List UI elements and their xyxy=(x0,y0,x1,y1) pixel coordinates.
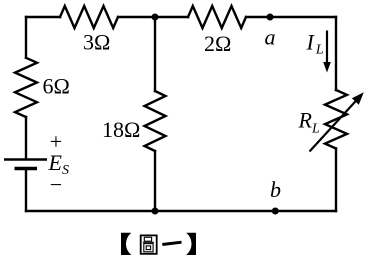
svg-text:a: a xyxy=(265,24,276,49)
svg-text:6Ω: 6Ω xyxy=(43,73,70,98)
RL variable arrow xyxy=(310,92,364,151)
battery ES long plate xyxy=(4,158,47,160)
wire bottom xyxy=(26,210,336,212)
caption character tu (figure) xyxy=(141,235,157,253)
caption bracket right xyxy=(186,233,196,255)
caption bracket left xyxy=(121,233,131,255)
wire middle vertical lower xyxy=(154,151,156,211)
wire 6ohm to battery top plate xyxy=(25,117,27,159)
resistor R 18ohm xyxy=(145,91,166,151)
wire right side upper xyxy=(335,17,337,90)
resistor R 2ohm xyxy=(188,6,246,28)
svg-text:+: + xyxy=(50,129,62,154)
junction dot bottom middle xyxy=(152,208,159,215)
battery ES short plate xyxy=(15,167,38,171)
svg-text:18Ω: 18Ω xyxy=(102,117,140,142)
IL current arrow xyxy=(323,31,331,73)
svg-text:3Ω: 3Ω xyxy=(83,30,110,55)
svg-text:b: b xyxy=(270,177,281,202)
caption character one xyxy=(162,242,181,244)
wire middle vertical upper xyxy=(154,17,156,91)
wire left upper (top corner to 6ohm) xyxy=(25,17,27,58)
wire 3ohm to 2ohm through top junction xyxy=(118,16,188,18)
wire right side lower xyxy=(335,149,337,212)
node b dot xyxy=(272,208,279,215)
wire 2ohm to top-right corner xyxy=(246,16,336,18)
svg-text:2Ω: 2Ω xyxy=(204,31,231,56)
wire left lower (battery to bottom corner) xyxy=(25,169,27,211)
junction dot top middle xyxy=(152,14,159,21)
wire top-left to 3-ohm xyxy=(26,16,60,18)
resistor R 6ohm xyxy=(15,58,37,117)
resistor R 3ohm xyxy=(60,6,118,28)
svg-text:−: − xyxy=(50,172,62,197)
node a dot xyxy=(267,14,274,21)
resistor RL zigzag xyxy=(325,90,347,149)
